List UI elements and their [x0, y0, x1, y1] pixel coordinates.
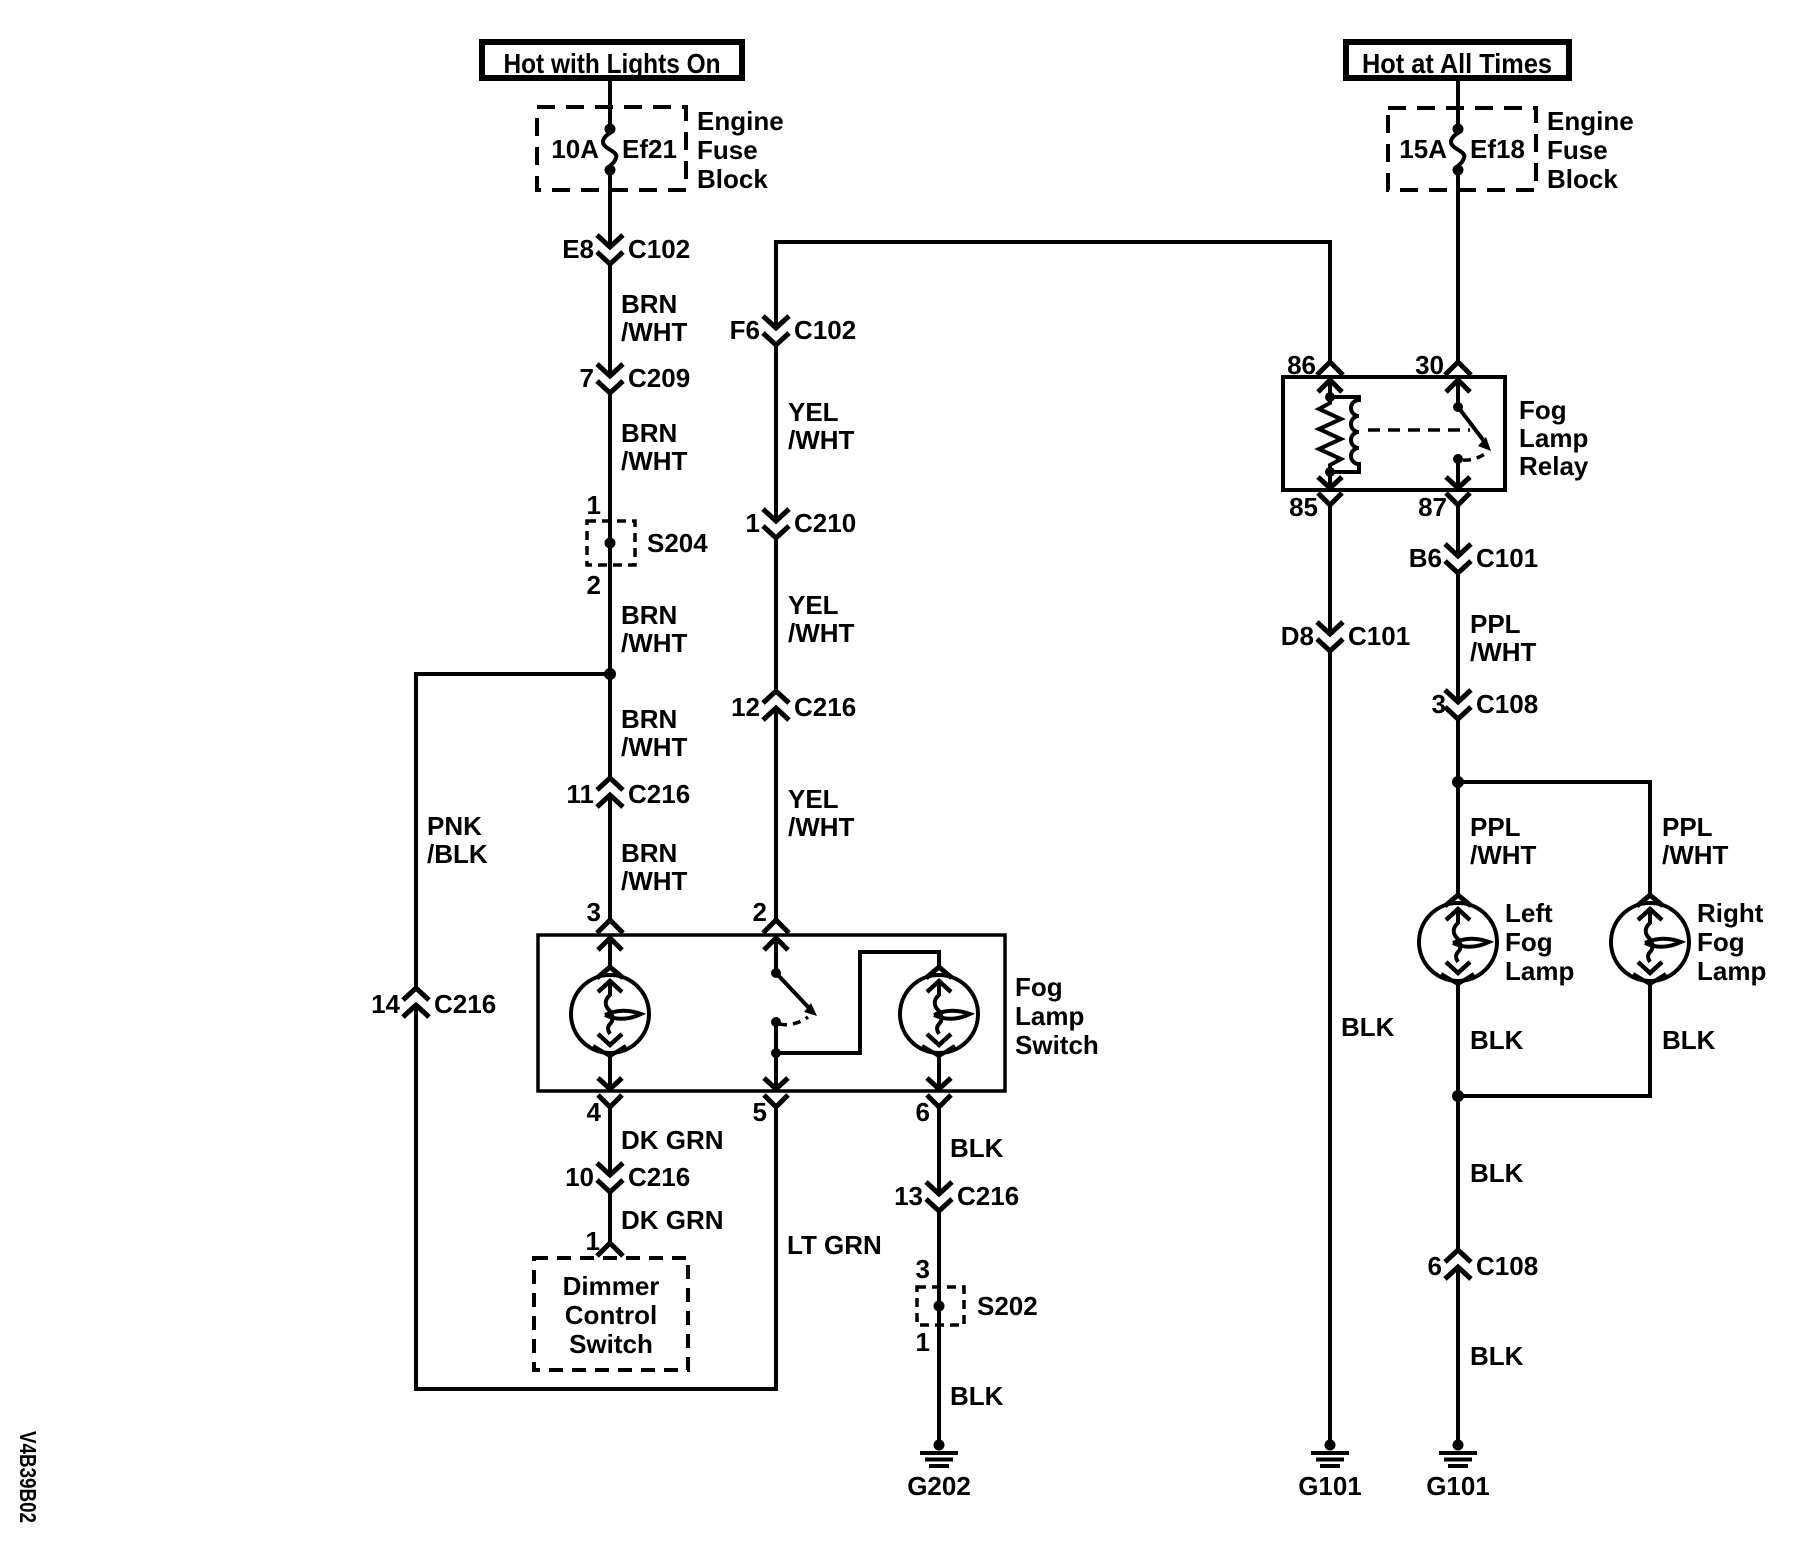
svg-text:V4B39B02: V4B39B02	[15, 1431, 41, 1523]
wire PNK/BLK down	[414, 672, 418, 988]
connector pin 4 below box	[598, 1095, 622, 1107]
connector C216 pin 13	[926, 1182, 952, 1211]
label Engine Fuse Block (right)	[1547, 106, 1634, 194]
connector C216 pin 14	[403, 988, 429, 1017]
label 1 C210	[746, 508, 857, 538]
junction node in switch	[771, 1048, 781, 1058]
svg-text:PPL: PPL	[1662, 812, 1713, 842]
label YEL/WHT	[788, 397, 855, 455]
svg-text:12: 12	[731, 692, 760, 722]
ground G202	[907, 1440, 971, 1502]
wire pin5 inside	[774, 1022, 778, 1087]
svg-text:86: 86	[1287, 350, 1316, 380]
wire YEL/WHT	[774, 345, 778, 521]
label 6 C108	[1428, 1251, 1539, 1281]
svg-text:2: 2	[753, 897, 767, 927]
svg-text:/WHT: /WHT	[621, 446, 688, 476]
svg-text:Engine: Engine	[1547, 106, 1634, 136]
label YEL/WHT	[788, 784, 855, 842]
wire DK GRN	[608, 1192, 612, 1243]
svg-text:C108: C108	[1476, 1251, 1538, 1281]
svg-text:C108: C108	[1476, 689, 1538, 719]
svg-text:/WHT: /WHT	[621, 866, 688, 896]
dashed blade throw	[1463, 453, 1486, 460]
wire down to left fog lamp	[1456, 719, 1460, 896]
relay switch contact node bottom	[1453, 454, 1463, 464]
label PPL/WHT left	[1470, 812, 1537, 870]
svg-text:BRN: BRN	[621, 289, 677, 319]
connector C102 pin E8	[597, 235, 623, 264]
svg-text:11: 11	[567, 779, 595, 809]
wire BRN/WHT	[608, 795, 612, 920]
svg-text:/WHT: /WHT	[788, 812, 855, 842]
svg-text:Fog: Fog	[1697, 927, 1745, 957]
svg-text:10: 10	[565, 1162, 594, 1192]
wire branch to right fog lamp	[1458, 782, 1650, 896]
svg-text:DK GRN: DK GRN	[621, 1205, 724, 1235]
svg-text:F6: F6	[730, 315, 760, 345]
wire BLK long	[1328, 651, 1332, 1441]
wire pin 5 arrow	[764, 1078, 788, 1089]
svg-text:BRN: BRN	[621, 418, 677, 448]
label E8 C102	[562, 234, 690, 264]
connector pin 86 at relay top	[1317, 362, 1343, 392]
label Fog Lamp Switch	[1015, 972, 1099, 1060]
svg-text:Hot at All Times: Hot at All Times	[1362, 48, 1552, 79]
svg-text:Hot with Lights On: Hot with Lights On	[504, 48, 721, 79]
fog lamp relay box	[1283, 377, 1505, 490]
wire pin 85 arrow	[1318, 472, 1342, 488]
switch blade in fog lamp switch	[771, 968, 817, 1027]
svg-text:C216: C216	[434, 989, 496, 1019]
wire BLK from pin 6	[937, 1107, 941, 1194]
svg-text:LT GRN: LT GRN	[787, 1230, 882, 1260]
wire PNK/BLK branch	[416, 672, 610, 676]
svg-text:7: 7	[580, 363, 594, 393]
fuse Ef18 15A	[1388, 108, 1536, 190]
svg-text:1: 1	[746, 508, 760, 538]
label 7 C209	[580, 363, 691, 393]
svg-text:DK GRN: DK GRN	[621, 1125, 724, 1155]
svg-text:/WHT: /WHT	[1470, 637, 1537, 667]
label YEL/WHT	[788, 590, 855, 648]
wire link to right lamp	[776, 952, 939, 1053]
svg-text:/BLK: /BLK	[427, 839, 488, 869]
svg-text:Fuse: Fuse	[1547, 135, 1608, 165]
wire pin 87 arrow	[1446, 459, 1470, 488]
right fog lamp	[1611, 895, 1689, 984]
svg-text:4: 4	[587, 1097, 602, 1127]
resistor in relay	[1319, 397, 1341, 472]
connector pin 6 below box	[927, 1095, 951, 1107]
svg-text:G202: G202	[907, 1471, 971, 1501]
connector C216 pin 10	[597, 1163, 623, 1192]
connector pin 5 below box	[764, 1095, 788, 1107]
connector pin 3 at box top	[597, 920, 623, 950]
label BRN/WHT	[621, 600, 688, 658]
svg-text:BLK: BLK	[950, 1381, 1004, 1411]
pin 86 stem	[1328, 380, 1332, 397]
svg-text:PPL: PPL	[1470, 609, 1521, 639]
wire BRN/WHT	[608, 393, 612, 539]
connector pin 85 below relay	[1318, 493, 1342, 505]
wire YEL/WHT	[774, 708, 778, 920]
svg-text:Engine: Engine	[697, 106, 784, 136]
svg-text:85: 85	[1289, 492, 1318, 522]
node Hot at All Times	[1346, 42, 1569, 79]
svg-text:/WHT: /WHT	[788, 425, 855, 455]
label Left Fog Lamp	[1505, 898, 1574, 986]
label BRN/WHT	[621, 289, 688, 347]
connector C101 pin D8	[1317, 622, 1343, 651]
svg-text:S202: S202	[977, 1291, 1038, 1321]
splice S204	[587, 521, 708, 565]
label BRN/WHT	[621, 418, 688, 476]
svg-text:C216: C216	[957, 1181, 1019, 1211]
left fog lamp	[1419, 895, 1497, 984]
svg-text:1: 1	[587, 490, 601, 520]
connector C216 pin 11	[597, 778, 623, 807]
fog lamp switch box	[538, 935, 1005, 1091]
svg-text:10A: 10A	[551, 134, 599, 164]
label PPL/WHT right	[1662, 812, 1729, 870]
pin 3 stem	[608, 938, 612, 967]
svg-text:Lamp: Lamp	[1015, 1001, 1084, 1031]
connector pin 2 at box top	[763, 920, 789, 950]
svg-text:YEL: YEL	[788, 784, 839, 814]
wire BRN/WHT	[608, 264, 612, 376]
lamp right in switch	[900, 967, 978, 1056]
wire loop bottom	[414, 1387, 778, 1391]
relay coil node top	[1325, 392, 1335, 402]
relay switch contact node top	[1453, 402, 1463, 412]
wire pin 6 arrow	[927, 1056, 951, 1089]
relay coil node bottom	[1325, 467, 1335, 477]
connector pin 87 below relay	[1446, 493, 1470, 505]
svg-text:Right: Right	[1697, 898, 1764, 928]
svg-text:B6: B6	[1409, 543, 1442, 573]
svg-text:Ef18: Ef18	[1470, 134, 1525, 164]
connector C216 pin 12	[763, 691, 789, 720]
svg-text:E8: E8	[562, 234, 594, 264]
svg-text:C101: C101	[1348, 621, 1410, 651]
label 11 C216	[567, 779, 691, 809]
lamp left in switch	[571, 967, 649, 1056]
junction node	[1452, 1090, 1464, 1102]
svg-text:1: 1	[916, 1327, 930, 1357]
svg-text:C101: C101	[1476, 543, 1538, 573]
wire to S202	[937, 1211, 941, 1302]
wire BRN/WHT	[608, 674, 612, 778]
pin 2 stem	[774, 938, 778, 969]
svg-text:5: 5	[753, 1097, 767, 1127]
dashed actuator link	[1368, 428, 1470, 432]
wire pin 4 arrow	[598, 1056, 622, 1089]
svg-text:BLK: BLK	[1341, 1012, 1395, 1042]
svg-text:PPL: PPL	[1470, 812, 1521, 842]
connector C102 pin F6	[763, 316, 789, 345]
wire to relay pin 86	[1328, 240, 1332, 362]
svg-text:BLK: BLK	[1470, 1158, 1524, 1188]
wire top horizontal to relay	[776, 240, 1332, 244]
connector C101 pin B6	[1445, 544, 1471, 573]
svg-text:C209: C209	[628, 363, 690, 393]
svg-text:PNK: PNK	[427, 811, 482, 841]
label Fog Lamp Relay	[1519, 395, 1589, 481]
svg-text:YEL: YEL	[788, 590, 839, 620]
svg-text:/WHT: /WHT	[1662, 840, 1729, 870]
connector C210 pin 1	[763, 509, 789, 538]
connector C108 pin 3	[1445, 690, 1471, 719]
svg-text:BLK: BLK	[1470, 1341, 1524, 1371]
wire LT GRN up	[774, 1107, 778, 1391]
label 3 C108	[1432, 689, 1539, 719]
wire	[608, 174, 612, 247]
svg-text:Block: Block	[1547, 164, 1618, 194]
svg-text:3: 3	[1432, 689, 1446, 719]
svg-text:BLK: BLK	[950, 1133, 1004, 1163]
svg-text:3: 3	[587, 897, 601, 927]
svg-text:Left: Left	[1505, 898, 1553, 928]
svg-text:Lamp: Lamp	[1505, 956, 1574, 986]
wire DK GRN	[608, 1107, 612, 1175]
svg-text:Control: Control	[565, 1300, 657, 1330]
svg-text:6: 6	[1428, 1251, 1442, 1281]
label B6 C101	[1409, 543, 1538, 573]
svg-text:Fog: Fog	[1505, 927, 1553, 957]
label PNK/BLK	[427, 811, 488, 869]
svg-text:YEL: YEL	[788, 397, 839, 427]
wire	[608, 81, 612, 126]
svg-text:/WHT: /WHT	[1470, 840, 1537, 870]
svg-text:87: 87	[1418, 492, 1447, 522]
label BRN/WHT	[621, 704, 688, 762]
svg-text:/WHT: /WHT	[621, 628, 688, 658]
svg-text:Switch: Switch	[569, 1329, 653, 1359]
svg-text:BLK: BLK	[1662, 1025, 1716, 1055]
svg-text:G101: G101	[1298, 1471, 1362, 1501]
wire BLK below left lamp	[1456, 984, 1460, 1250]
connector pin 30 at relay top	[1445, 362, 1471, 392]
svg-text:C216: C216	[794, 692, 856, 722]
connector C108 pin 6	[1445, 1250, 1471, 1279]
label Right Fog Lamp	[1697, 898, 1766, 986]
fuse Ef21 10A	[537, 107, 686, 190]
connector pin 1 at dimmer box	[597, 1243, 623, 1256]
label 10 C216	[565, 1162, 690, 1192]
svg-text:/WHT: /WHT	[788, 618, 855, 648]
svg-text:Fuse: Fuse	[697, 135, 758, 165]
node Hot with Lights On	[482, 42, 742, 79]
label BRN/WHT	[621, 838, 688, 896]
coil in relay	[1330, 397, 1359, 472]
label 12 C216	[731, 692, 856, 722]
wire loop down	[414, 1005, 418, 1391]
wire PPL/WHT	[1456, 573, 1460, 702]
wire YEL/WHT	[774, 538, 778, 691]
svg-text:BRN: BRN	[621, 600, 677, 630]
svg-text:/WHT: /WHT	[621, 732, 688, 762]
label 14 C216	[371, 989, 496, 1019]
svg-text:Lamp: Lamp	[1519, 423, 1588, 453]
svg-text:1: 1	[586, 1226, 600, 1256]
wire to relay pin 30	[1456, 174, 1460, 362]
svg-text:G101: G101	[1426, 1471, 1490, 1501]
svg-text:C102: C102	[628, 234, 690, 264]
svg-text:Switch: Switch	[1015, 1030, 1099, 1060]
svg-text:13: 13	[894, 1181, 923, 1211]
svg-text:S204: S204	[647, 528, 708, 558]
svg-text:C102: C102	[794, 315, 856, 345]
svg-text:BRN: BRN	[621, 704, 677, 734]
wire down to F6	[774, 240, 778, 328]
svg-text:BLK: BLK	[1470, 1025, 1524, 1055]
label PPL/WHT	[1470, 609, 1537, 667]
svg-text:14: 14	[371, 989, 400, 1019]
splice S202	[917, 1287, 1038, 1325]
label 13 C216	[894, 1181, 1019, 1211]
svg-text:30: 30	[1415, 350, 1444, 380]
svg-text:15A: 15A	[1399, 134, 1447, 164]
wire pin 87 down	[1456, 505, 1460, 556]
svg-text:Dimmer: Dimmer	[563, 1271, 660, 1301]
wire BLK to ground	[1456, 1267, 1460, 1441]
svg-text:C210: C210	[794, 508, 856, 538]
label F6 C102	[730, 315, 857, 345]
ground G101 right	[1426, 1440, 1490, 1502]
svg-text:3: 3	[916, 1254, 930, 1284]
wire	[1456, 81, 1460, 126]
wire BLK to ground	[937, 1310, 941, 1441]
junction node	[1452, 776, 1464, 788]
svg-text:BRN: BRN	[621, 838, 677, 868]
svg-text:Fog: Fog	[1519, 395, 1567, 425]
wire pin 85 down	[1328, 505, 1332, 634]
svg-text:2: 2	[587, 570, 601, 600]
svg-text:Fog: Fog	[1015, 972, 1063, 1002]
svg-text:Block: Block	[697, 164, 768, 194]
svg-text:C216: C216	[628, 779, 690, 809]
wire BLK below right lamp	[1458, 984, 1650, 1096]
pin 30 stem	[1456, 380, 1460, 407]
svg-text:/WHT: /WHT	[621, 317, 688, 347]
svg-text:6: 6	[916, 1097, 930, 1127]
svg-text:Lamp: Lamp	[1697, 956, 1766, 986]
dimmer control switch box	[534, 1258, 688, 1370]
svg-text:C216: C216	[628, 1162, 690, 1192]
label Engine Fuse Block (left)	[697, 106, 784, 194]
junction node	[604, 668, 616, 680]
connector C209 pin 7	[597, 364, 623, 393]
wire BRN/WHT	[608, 548, 612, 674]
label D8 C101	[1281, 621, 1410, 651]
svg-text:Relay: Relay	[1519, 451, 1589, 481]
ground G101 left	[1298, 1440, 1362, 1502]
svg-text:Ef21: Ef21	[622, 134, 677, 164]
svg-text:D8: D8	[1281, 621, 1314, 651]
relay switch blade	[1458, 407, 1491, 451]
